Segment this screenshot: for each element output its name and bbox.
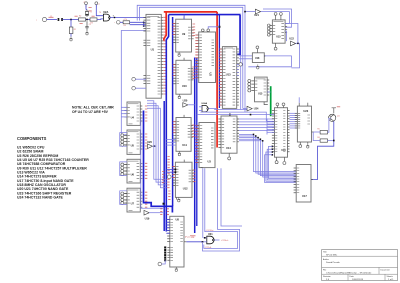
- U17 left pins: [294, 168, 297, 193]
- resistor R2: [79, 18, 86, 21]
- U15b bottom: [275, 43, 277, 47]
- U3 left red labels: [195, 126, 198, 163]
- svg-text:R1: R1: [74, 29, 76, 31]
- port: [239, 63, 242, 66]
- svg-text:U9: U9: [182, 32, 186, 36]
- svg-text:U24: U24: [254, 108, 259, 111]
- U7 tie loop: [120, 191, 127, 205]
- wire: [214, 107, 247, 110]
- wire vertical: [240, 14, 242, 102]
- wire: [245, 11, 255, 13]
- wire: [47, 19, 57, 21]
- U6 bottom text: [129, 181, 133, 183]
- U15b register box: [272, 20, 285, 43]
- counter U7 box: [127, 188, 140, 212]
- U15 right pins: [267, 80, 269, 95]
- wire red clock elbow: [164, 12, 166, 41]
- svg-text:U14: U14: [226, 146, 231, 150]
- resistor R5: [320, 131, 327, 135]
- U15 bottom: [264, 102, 268, 105]
- U13 right names: [233, 49, 236, 105]
- wire: [70, 34, 72, 37]
- counter U4 box: [127, 102, 140, 125]
- U7 left pins: [124, 194, 127, 204]
- wire: [267, 91, 271, 93]
- svg-text:R2: R2: [79, 16, 81, 18]
- U1 header: [147, 16, 159, 18]
- svg-text:U2A: U2A: [103, 10, 108, 14]
- wire blue bus pair A: [194, 58, 196, 234]
- wire: [85, 5, 87, 10]
- U12 right pins: [192, 170, 194, 182]
- U16 top pins: [276, 103, 279, 106]
- transistor Q1: [329, 114, 336, 121]
- U13 header: [224, 47, 233, 49]
- U6 right pins: [140, 163, 142, 178]
- wire fan: [166, 219, 170, 221]
- U23 inner names: [298, 113, 300, 128]
- wire: [214, 239, 219, 241]
- U12 ground: [177, 197, 180, 199]
- U6 left pins: [124, 165, 127, 175]
- wire blue bus pair B: [196, 58, 198, 227]
- U18 top pin: [256, 49, 258, 53]
- wire loop: [261, 12, 290, 24]
- U7 inner names: [128, 194, 130, 204]
- U6 left ports: [121, 163, 124, 166]
- wire: [147, 103, 167, 182]
- U1 right pins: [161, 17, 163, 94]
- wire top run B: [140, 7, 243, 98]
- svg-text:R5: R5: [317, 129, 319, 131]
- U10 top pin: [183, 58, 185, 61]
- counter U6 box: [127, 159, 140, 183]
- buffer U21 triangle: [255, 9, 260, 14]
- U1 left pin names: [147, 18, 151, 21]
- svg-text:Author: Author: [323, 258, 329, 261]
- U14 inner names: [222, 119, 224, 148]
- U17 box: [296, 165, 311, 203]
- U16 left dots: [272, 146, 274, 148]
- gate U2A: [103, 14, 110, 21]
- svg-text:R4: R4: [124, 25, 126, 27]
- wire: [240, 102, 242, 110]
- wire: [208, 108, 217, 110]
- wire: [120, 21, 123, 23]
- U6 right red labels: [145, 163, 147, 178]
- wire P=Q: [186, 241, 203, 243]
- wire U12 pin feeds: [166, 168, 175, 170]
- U10 left pins: [173, 65, 176, 84]
- wire green: [270, 86, 272, 116]
- power +5V: [95, 5, 97, 8]
- U8 inner names: [170, 220, 173, 242]
- U5 left ports: [121, 134, 124, 137]
- wire: [70, 20, 72, 28]
- U10 left red labels: [173, 65, 176, 76]
- svg-text:U8: U8: [176, 218, 180, 222]
- wire: [130, 21, 146, 23]
- wire: [328, 140, 334, 142]
- wire blue bus horizontal: [169, 14, 240, 16]
- U18 ground: [256, 65, 259, 67]
- buffer U20 triangle: [183, 103, 188, 108]
- wire: [237, 66, 239, 68]
- U17 inner names: [297, 168, 299, 193]
- U2 left pins: [196, 35, 199, 78]
- wire: [285, 31, 286, 41]
- wire loop U21b: [204, 168, 238, 248]
- buffer U20 triangle2: [148, 144, 153, 149]
- multiplexer U10 box: [176, 60, 191, 94]
- multiplexer U11 box: [176, 118, 191, 152]
- U18 oscillator box: [252, 53, 264, 63]
- wire: [267, 120, 275, 122]
- svg-text:Dawid Pieciak: Dawid Pieciak: [326, 262, 341, 264]
- svg-text:+5: +5: [83, 2, 85, 4]
- U7 header: [128, 189, 139, 191]
- buffer U22 triangle: [291, 41, 296, 46]
- U23 left pins: [295, 113, 298, 128]
- svg-text:(P=Q: (P=Q: [185, 237, 190, 239]
- U9 inner names: [176, 23, 178, 42]
- title block: [322, 250, 398, 281]
- U23 bottom pins: [299, 142, 301, 145]
- wire top run A: [137, 5, 245, 95]
- U5 inner names: [128, 135, 130, 145]
- ground: [306, 144, 309, 146]
- wire: [242, 99, 244, 109]
- svg-text:U4: U4: [131, 115, 135, 119]
- wire: [147, 106, 167, 185]
- U16 bottom pins: [276, 157, 278, 160]
- capacitor C1 series: [58, 18, 60, 21]
- wire loop U21: [202, 168, 204, 238]
- port RES: [117, 21, 121, 25]
- wire: [203, 237, 207, 239]
- wire: [266, 119, 268, 135]
- U15 left ports: [248, 79, 251, 82]
- wire U9 top: [183, 15, 185, 20]
- U12 right red labels: [193, 170, 196, 182]
- U8 ground: [175, 267, 178, 269]
- wire: [296, 42, 300, 44]
- counter U15 box: [255, 77, 268, 102]
- buffer U24 triangle: [247, 106, 252, 111]
- port NMI: [132, 86, 136, 90]
- U16 right pins: [288, 111, 290, 152]
- U14 box: [221, 116, 237, 153]
- U13 VIA box: [222, 47, 236, 109]
- svg-text:74: 74: [99, 12, 101, 14]
- wire blue right elbow: [237, 15, 240, 55]
- svg-text:C:\Users\Dawid\Repos\8BitComp: C:\Users\Dawid\Repos\8BitComp ... SP-02s…: [326, 271, 372, 274]
- svg-text:U6: U6: [131, 173, 135, 177]
- port: [158, 262, 162, 266]
- U12 right names: [189, 170, 192, 182]
- crystal Y1: [85, 15, 89, 17]
- U17 right pin: [311, 179, 313, 181]
- wire red clock horizontal: [164, 11, 217, 13]
- wire: [97, 18, 103, 21]
- U8 comparator box: [170, 216, 184, 267]
- wire: [96, 5, 103, 16]
- wire U2 top feed: [208, 27, 219, 29]
- wire clock out: [110, 17, 146, 19]
- U23 top pins: [298, 103, 300, 106]
- wire: [298, 97, 300, 102]
- port IRQ: [132, 77, 136, 81]
- U12 inner names: [176, 166, 178, 185]
- svg-text:U1: U1: [151, 47, 155, 51]
- wire loop U21d: [221, 168, 242, 226]
- svg-text:Sheets: Sheets: [387, 275, 393, 278]
- U8 left pins upper: [167, 220, 170, 242]
- U1 right red labels: [163, 17, 165, 94]
- U15b right pins: [285, 23, 287, 32]
- wire blue tee vertical: [218, 15, 220, 108]
- U4 header: [128, 103, 139, 105]
- U10 right red labels: [192, 67, 195, 79]
- svg-text:Revision: Revision: [323, 276, 331, 278]
- ground: [70, 37, 73, 39]
- node junction: [218, 26, 220, 28]
- multiplexer U12 box: [175, 162, 192, 197]
- U12 left pins: [173, 166, 176, 185]
- U9 left red labels: [173, 23, 176, 34]
- wire: [147, 101, 167, 180]
- wire: [239, 58, 252, 60]
- svg-text:U15: U15: [276, 35, 281, 38]
- U9 right names: [188, 27, 191, 39]
- wire loop U21c: [203, 168, 240, 251]
- svg-text:U21: U21: [208, 233, 213, 236]
- U4 inner names: [128, 107, 130, 117]
- U14 right pins: [237, 119, 239, 142]
- U2 inner names: [199, 35, 202, 78]
- U11 left pins: [173, 122, 176, 141]
- U20 out wire: [188, 104, 194, 106]
- U9 top pin: [183, 17, 185, 20]
- U10 right pins: [191, 68, 193, 80]
- U11 right red labels: [192, 125, 195, 137]
- U7 left ports: [121, 192, 124, 195]
- svg-text:C1: C1: [50, 16, 52, 18]
- U11 top pin: [183, 115, 185, 118]
- wire blue bus 3: [163, 101, 165, 231]
- svg-text:U21: U21: [254, 13, 259, 17]
- U7 bottom text: [129, 210, 133, 212]
- U16 left pins: [272, 111, 275, 152]
- svg-text:U5: U5: [131, 143, 135, 147]
- svg-text:10/02/2019: 10/02/2019: [352, 279, 364, 281]
- U8 PQ pin: [184, 241, 186, 243]
- wire: [147, 108, 167, 188]
- svg-text:-WE: -WE: [191, 237, 196, 239]
- gate U24A: [202, 105, 208, 112]
- U11 right pins: [191, 126, 193, 138]
- U5 left pins: [124, 135, 127, 145]
- U2 left red labels: [195, 35, 198, 78]
- power +5V: [85, 5, 87, 8]
- U9 right pins: [192, 27, 194, 39]
- wire: [311, 121, 334, 179]
- resistor R4: [123, 21, 130, 24]
- U12 top pin: [183, 160, 185, 163]
- svg-text:U3: U3: [208, 160, 212, 164]
- U16 connector box: [275, 108, 288, 158]
- wire: [269, 146, 297, 178]
- svg-text:U23: U23: [303, 109, 308, 113]
- svg-text:+5: +5: [98, 4, 100, 6]
- U9 ground: [178, 52, 181, 54]
- svg-text:U19: U19: [145, 217, 150, 221]
- U7 right red labels: [145, 192, 147, 207]
- svg-text:R6: R6: [317, 137, 319, 139]
- capacitor C2 vertical: [85, 21, 88, 30]
- U12 left red labels: [172, 166, 175, 177]
- U13 left pins: [220, 49, 223, 105]
- U5 right red labels: [145, 134, 147, 149]
- U6 header: [128, 160, 139, 162]
- U5 header: [128, 131, 139, 133]
- U3 right names: [211, 128, 214, 148]
- U2 SRAM box: [199, 32, 216, 83]
- wire: [86, 19, 91, 21]
- U11 left red labels: [173, 122, 176, 133]
- wire: [248, 56, 291, 67]
- U14 bottom: [228, 153, 230, 156]
- U13 right pins: [237, 49, 239, 105]
- U15b header: [273, 21, 283, 23]
- U3 inner names: [200, 126, 203, 163]
- U10 inner names: [177, 65, 179, 84]
- svg-text:U24A: U24A: [202, 102, 208, 105]
- svg-text:c: c: [36, 20, 37, 22]
- svg-text:SP-02 SBC: SP-02 SBC: [326, 254, 338, 256]
- resistor R3: [90, 18, 97, 21]
- wire: [239, 55, 264, 57]
- svg-text:U2: U2: [209, 73, 213, 77]
- U12 bottom pin2: [176, 197, 178, 199]
- resistor R6: [320, 139, 327, 142]
- svg-text:COMPONENTS: COMPONENTS: [17, 136, 47, 141]
- U14 left pins: [218, 119, 221, 148]
- U23 right pin: [312, 131, 314, 133]
- wire: [63, 19, 79, 21]
- svg-text:Y1: Y1: [90, 12, 92, 14]
- gate U21 NAND: [207, 236, 214, 244]
- wire: [291, 43, 299, 68]
- svg-text:U10: U10: [182, 84, 187, 88]
- U11 ground: [178, 151, 181, 153]
- U7 right pins: [140, 192, 142, 207]
- wire: [285, 24, 298, 44]
- resistor R1 vertical: [69, 27, 73, 34]
- node junction: [70, 19, 72, 21]
- wire U11 feeds: [166, 139, 176, 141]
- U3 EEPROM box: [199, 123, 215, 168]
- svg-text:Document: Document: [381, 268, 391, 271]
- U9 left pins: [173, 23, 176, 42]
- wire: [149, 212, 164, 214]
- svg-text:U15: U15: [258, 93, 263, 96]
- multiplexer U9 box: [176, 19, 192, 52]
- U4 right red labels: [145, 106, 147, 121]
- U16 inner names: [275, 111, 277, 152]
- wire: [197, 108, 278, 115]
- wire: [141, 119, 164, 208]
- wire staircase bundle: [239, 118, 275, 120]
- wire blue bus 2: [172, 17, 174, 206]
- U13 inner left names: [223, 49, 225, 105]
- U3 bottom pins: [201, 167, 203, 169]
- wire: [130, 24, 146, 26]
- U15b top pins: [274, 13, 277, 16]
- node junction: [86, 19, 88, 21]
- U23 box: [297, 106, 311, 142]
- svg-text:4.7k: 4.7k: [124, 19, 127, 21]
- wire loop2: [263, 9, 292, 27]
- wire: [244, 95, 246, 112]
- U5 tie loop: [120, 133, 127, 147]
- U10 ground: [178, 94, 181, 96]
- wire blue bus counters: [144, 111, 173, 213]
- wire blue elbow down: [166, 15, 168, 232]
- power +5V bar: [332, 108, 336, 114]
- U15b inner names: [273, 25, 275, 34]
- U9 right red labels: [193, 24, 196, 36]
- node junction: [250, 114, 252, 116]
- wire left rail: [121, 31, 146, 135]
- wire: [201, 112, 267, 121]
- svg-text:R3: R3: [91, 22, 93, 24]
- svg-text:U22: U22: [289, 38, 294, 41]
- U4 left feeds: [121, 106, 127, 108]
- ground: [86, 31, 89, 33]
- U11 inner names: [177, 122, 179, 141]
- U5 right pins: [140, 134, 142, 149]
- U12 red hooks: [167, 179, 169, 187]
- U4 left pins: [124, 107, 127, 117]
- node junction: [163, 203, 165, 205]
- U4 bottom text: [129, 123, 133, 125]
- U5 bottom text: [129, 152, 133, 154]
- wire: [243, 108, 247, 110]
- U15 inner names: [255, 81, 257, 91]
- U4 right pins: [140, 106, 142, 121]
- wire red vertical bus: [216, 12, 218, 148]
- svg-text:U20: U20: [183, 99, 188, 103]
- svg-text:U13: U13: [226, 73, 231, 77]
- svg-text:1 of 1: 1 of 1: [388, 279, 394, 281]
- counter U5 box: [127, 130, 140, 154]
- buffer U19 triangle: [144, 210, 149, 215]
- U1 left pins: [143, 18, 146, 21]
- wire: [314, 131, 320, 133]
- port: [167, 175, 171, 179]
- U11 right names: [188, 126, 191, 138]
- U2 right names: [212, 40, 215, 66]
- U15 header: [256, 78, 266, 80]
- U8 jumper squares: [164, 246, 166, 248]
- node junction: [264, 55, 266, 57]
- wire: [290, 112, 298, 114]
- cpu U1 box: [146, 14, 161, 98]
- U13 left red labels: [219, 49, 222, 105]
- U15b left ports: [267, 24, 270, 27]
- bus red labels: [168, 157, 170, 174]
